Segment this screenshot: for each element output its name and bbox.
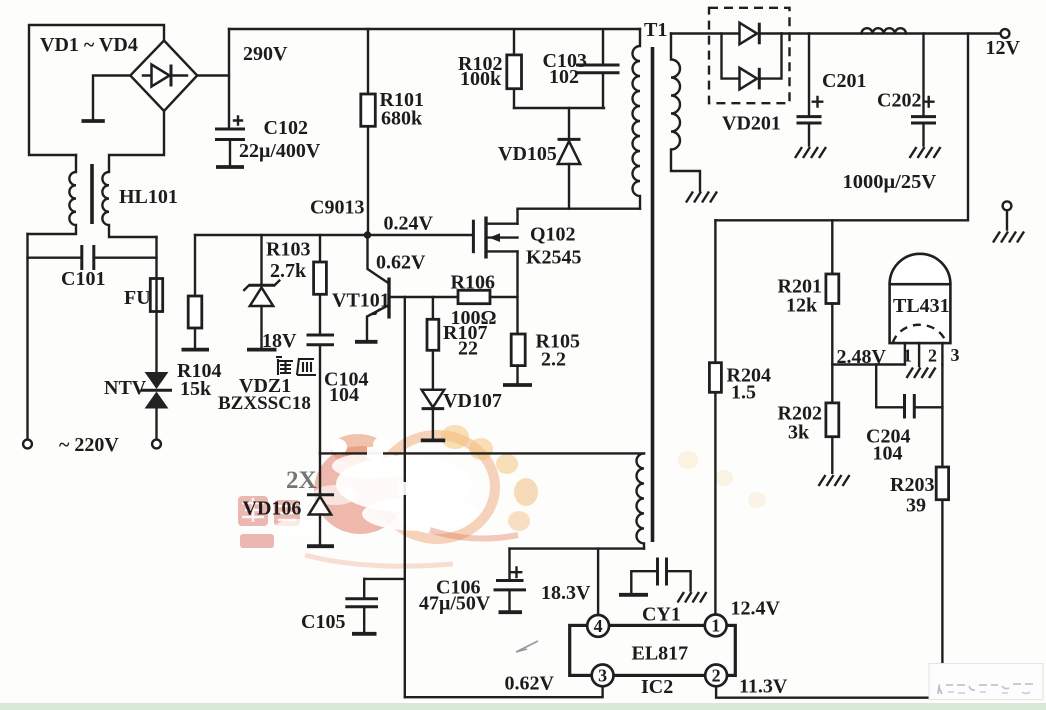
terminal output ground xyxy=(1003,201,1012,210)
svg-text:680k: 680k xyxy=(381,108,423,130)
capacitor C105 xyxy=(345,579,405,634)
svg-text:2: 2 xyxy=(712,665,721,685)
svg-text:2.2: 2.2 xyxy=(541,349,566,371)
wire TL431 pin3 down xyxy=(941,365,943,468)
wire pin1 feed / R204 line xyxy=(714,220,716,362)
wire 18.3V xyxy=(510,547,645,549)
svg-text:VD107: VD107 xyxy=(443,390,502,412)
svg-text:12.4V: 12.4V xyxy=(731,598,781,620)
svg-text:C105: C105 xyxy=(301,611,345,633)
capacitor C101 xyxy=(28,245,157,270)
transformer T1 primary winding xyxy=(633,29,641,209)
resistor R107 xyxy=(427,297,439,390)
resistor R203 xyxy=(936,467,948,698)
svg-text:2: 2 xyxy=(928,346,937,366)
svg-text:4: 4 xyxy=(594,616,603,636)
svg-text:18V: 18V xyxy=(262,330,297,352)
svg-text:18.3V: 18.3V xyxy=(541,582,591,604)
svg-text:FU: FU xyxy=(124,287,151,309)
svg-text:BZXSSC18: BZXSSC18 xyxy=(218,393,311,414)
svg-text:2.48V: 2.48V xyxy=(837,346,887,368)
wire VD201 anode link xyxy=(722,34,740,79)
inductor HL101 right winding xyxy=(102,111,164,237)
svg-text:EL817: EL817 xyxy=(632,643,689,665)
resistor R201 xyxy=(826,220,839,403)
svg-text:3: 3 xyxy=(951,345,960,365)
svg-text:22μ/400V: 22μ/400V xyxy=(239,140,321,162)
wire feedback vertical to optocoupler xyxy=(404,297,406,697)
capacitor C106 xyxy=(494,549,527,613)
svg-text:12k: 12k xyxy=(786,295,818,317)
transformer T1 secondary winding xyxy=(671,34,700,191)
resistor R202 xyxy=(826,403,839,473)
wire 12V drop to regulation xyxy=(715,34,968,221)
bridge rectifier VD1~VD4 xyxy=(130,41,197,112)
varistor NTV xyxy=(141,372,172,439)
wire left line to terminal xyxy=(26,234,28,439)
resistor R101 xyxy=(361,29,376,232)
svg-text:1.5: 1.5 xyxy=(731,382,756,404)
diode VD106 xyxy=(307,453,334,546)
svg-text:VT101: VT101 xyxy=(332,290,390,312)
wire 2.48V xyxy=(832,363,905,365)
svg-text:CY1: CY1 xyxy=(642,604,681,626)
transformer T1 feedback winding xyxy=(636,453,644,548)
ground (bridge) xyxy=(82,119,105,123)
terminal ~220V left xyxy=(23,440,32,449)
svg-text:2X: 2X xyxy=(286,467,317,494)
ground (C202, hatched) xyxy=(910,147,941,158)
svg-text:IC2: IC2 xyxy=(641,676,673,698)
svg-text:NTV: NTV xyxy=(104,377,147,399)
pin 4 xyxy=(587,615,609,637)
capacitor C102 xyxy=(215,117,245,168)
transistor VT101 xyxy=(355,235,389,342)
resistor R103 xyxy=(314,235,327,334)
resistor R204 xyxy=(709,363,721,615)
resistor R106 xyxy=(458,290,518,303)
svg-text:VD105: VD105 xyxy=(498,143,557,165)
pin 1 xyxy=(705,615,727,637)
capacitor C202 xyxy=(911,34,936,146)
wire input box top-left xyxy=(29,25,164,155)
capacitor C204 xyxy=(876,365,942,419)
svg-text:C202: C202 xyxy=(877,90,921,112)
optocoupler IC2 EL817 box xyxy=(570,625,736,675)
capacitor CY1 xyxy=(619,558,691,595)
svg-text:15k: 15k xyxy=(180,378,212,400)
wire secondary top to VD201 xyxy=(671,32,740,34)
svg-text:39: 39 xyxy=(906,495,926,517)
bottom colour band xyxy=(0,703,1046,710)
svg-text:1000μ/25V: 1000μ/25V xyxy=(843,171,937,193)
terminal ~220V right xyxy=(152,440,161,449)
wire top rail 290V xyxy=(229,28,640,30)
wire 12V rail xyxy=(782,32,1001,34)
svg-text:12V: 12V xyxy=(986,37,1021,59)
svg-text:0.24V: 0.24V xyxy=(384,213,434,235)
svg-text:C9013: C9013 xyxy=(310,197,364,219)
inductor HL101 core xyxy=(90,164,94,224)
svg-text:104: 104 xyxy=(873,443,903,465)
wire break blobs xyxy=(367,447,383,459)
pencil check mark xyxy=(516,641,538,652)
diode VD105 xyxy=(558,108,581,209)
ground (output, hatched) xyxy=(993,232,1024,243)
svg-text:3: 3 xyxy=(598,665,607,685)
watermark xyxy=(238,425,766,566)
svg-text:1: 1 xyxy=(903,346,912,366)
inductor HL101 left winding xyxy=(28,155,77,234)
ground (CY1, hatched) xyxy=(678,592,707,603)
svg-text:0.62V: 0.62V xyxy=(505,673,555,695)
resistor R104 xyxy=(182,235,210,350)
diode VD107 xyxy=(421,390,445,441)
resistor R105 xyxy=(503,251,532,385)
wire pin3 to 0.62V net xyxy=(405,686,603,697)
label wenya (CJK) drawn strokes xyxy=(276,357,316,375)
bottom-right watermark text box xyxy=(929,664,1043,700)
svg-text:102: 102 xyxy=(549,66,579,88)
pin 3 xyxy=(592,665,614,687)
wire bridge output to 290V rail xyxy=(197,74,229,76)
node junction dot xyxy=(364,231,372,239)
inductor L201 xyxy=(861,28,906,33)
wire pin2 to R203 net xyxy=(716,686,942,697)
wire bridge left arm to ground xyxy=(93,76,130,119)
diode VD201 upper xyxy=(740,23,782,45)
zener diode VDZ1 xyxy=(244,235,279,350)
svg-text:VD106: VD106 xyxy=(243,498,302,520)
capacitor C103 xyxy=(576,30,620,108)
ground (R202, hatched) xyxy=(819,475,850,486)
fuse FU xyxy=(150,237,162,372)
svg-text:R106: R106 xyxy=(451,272,495,294)
svg-text:Q102: Q102 xyxy=(530,224,576,246)
svg-text:2.7k: 2.7k xyxy=(270,260,307,282)
wire snubber bottom xyxy=(514,107,604,109)
svg-text:3k: 3k xyxy=(788,422,810,444)
svg-text:VD1 ~ VD4: VD1 ~ VD4 xyxy=(40,34,138,56)
ground (TL431 pin2, hatched) xyxy=(907,368,936,379)
svg-text:HL101: HL101 xyxy=(119,186,178,208)
svg-text:T1: T1 xyxy=(644,19,667,41)
svg-text:~ 220V: ~ 220V xyxy=(59,434,119,456)
svg-text:22: 22 xyxy=(458,338,478,360)
wire VT101 base xyxy=(389,296,458,298)
dashed box VD201 xyxy=(709,8,790,103)
svg-text:1: 1 xyxy=(711,616,720,636)
wire gate node 0.24V xyxy=(195,234,473,236)
capacitor C104 xyxy=(307,335,335,453)
svg-text:R103: R103 xyxy=(266,239,310,261)
wire pin4 xyxy=(597,549,599,616)
node 290V drop xyxy=(228,29,230,128)
MOSFET Q102 xyxy=(473,209,640,259)
ground (T1 secondary, hatched) xyxy=(686,192,717,203)
diode VD201 lower xyxy=(740,34,782,90)
svg-text:R203: R203 xyxy=(890,474,934,496)
svg-text:104: 104 xyxy=(329,384,359,406)
transformer T1 core xyxy=(651,47,655,542)
capacitor C201 xyxy=(797,34,823,146)
svg-text:100k: 100k xyxy=(460,68,502,90)
resistor R102 xyxy=(507,30,522,109)
feedback winding wire xyxy=(320,452,644,454)
terminal 12V xyxy=(1001,29,1010,38)
svg-text:47μ/50V: 47μ/50V xyxy=(419,593,491,615)
svg-text:C201: C201 xyxy=(822,70,866,92)
svg-text:11.3V: 11.3V xyxy=(739,676,788,698)
svg-text:0.62V: 0.62V xyxy=(376,252,426,274)
ground (C201, hatched) xyxy=(795,147,826,158)
svg-text:C101: C101 xyxy=(61,268,105,290)
svg-text:K2545: K2545 xyxy=(526,247,582,269)
pin 2 xyxy=(705,665,727,687)
wire terminal to ground xyxy=(1006,210,1008,229)
svg-text:TL431: TL431 xyxy=(893,295,950,317)
svg-text:VD201: VD201 xyxy=(722,113,781,135)
svg-text:290V: 290V xyxy=(243,43,288,65)
svg-text:C102: C102 xyxy=(264,117,308,139)
IC TL431 xyxy=(890,254,951,366)
